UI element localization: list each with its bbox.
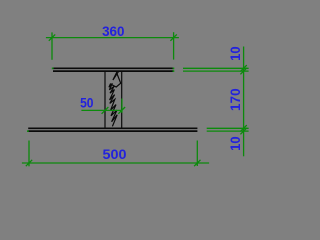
right dims extension line top flange top bbox=[183, 67, 249, 69]
svg-text:170: 170 bbox=[227, 88, 243, 111]
svg-text:50: 50 bbox=[80, 95, 94, 111]
right dims tick bottom flange top bbox=[240, 125, 246, 131]
web left line bbox=[104, 71, 106, 128]
dim 360 right tick bbox=[170, 34, 176, 40]
web right line bbox=[121, 71, 123, 128]
right dims extension line top flange bottom bbox=[183, 70, 249, 72]
dim 360 right extension line bbox=[173, 32, 175, 59]
right dims vertical dimension line bbox=[243, 47, 245, 157]
defpoint mark top flange right tip lower bbox=[173, 70, 175, 72]
svg-text:360: 360 bbox=[102, 23, 125, 39]
svg-text:10: 10 bbox=[227, 136, 243, 151]
right dims tick top flange bottom bbox=[240, 68, 246, 74]
defpoint mark top flange right tip upper bbox=[173, 68, 175, 70]
dim 360 left tick bbox=[49, 34, 55, 40]
right dims tick top flange top bbox=[240, 65, 246, 71]
dim 500 left extension line bbox=[28, 141, 30, 167]
dim 50 right tick bbox=[118, 107, 125, 114]
dim 50 left extension line (hidden under web) bbox=[104, 99, 106, 113]
right dims tick bottom flange bottom bbox=[240, 128, 246, 134]
defpoint mark top flange left tip bbox=[52, 68, 54, 70]
right dims extension line bottom flange top bbox=[207, 127, 249, 129]
bottom flange bottom line bbox=[28, 130, 197, 132]
defpoint mark bottom flange left tip bbox=[27, 130, 29, 132]
top flange top line bbox=[53, 67, 174, 69]
dim 500 left tick bbox=[26, 160, 32, 166]
top flange bottom line bbox=[53, 70, 174, 72]
dim 500 right extension line bbox=[196, 141, 198, 167]
dim 360 dimension line bbox=[46, 37, 179, 39]
dim 360 left extension line bbox=[51, 32, 53, 59]
dim 50 left tick bbox=[102, 107, 109, 114]
web break squiggle bbox=[109, 71, 121, 127]
svg-text:500: 500 bbox=[103, 146, 127, 162]
svg-text:10: 10 bbox=[227, 46, 243, 61]
dim 50 dimension line bbox=[81, 109, 122, 111]
right dims extension line bottom flange bottom bbox=[207, 130, 249, 132]
dim 500 right tick bbox=[194, 160, 200, 166]
dim 500 dimension line bbox=[22, 162, 209, 164]
dim 50 right extension line bbox=[121, 99, 123, 113]
bottom flange top line bbox=[28, 127, 197, 129]
